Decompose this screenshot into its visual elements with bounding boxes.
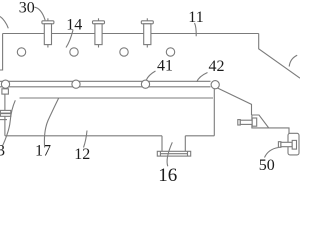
pin 1 bar [240,120,252,124]
furnace body 11 top line [3,33,259,35]
bolt 3 body [144,24,151,45]
hole 14 [70,48,78,56]
svg-text:16: 16 [158,165,177,186]
roller 41 [72,80,80,88]
hole 4 [166,48,174,56]
leader arc top-left (off-image label) [0,17,8,29]
tray bottom left [5,135,162,137]
svg-text:30: 30 [19,0,35,17]
bolt 3 cap [141,21,153,24]
bracket block 2 [288,133,299,155]
leader 11 [195,23,197,36]
roller 3 [141,80,149,88]
leader 41 [146,71,155,80]
rail 42 bottom line [0,86,211,88]
link line to bracket 2 [269,128,289,133]
bolt 2 cap [93,21,105,24]
tray 12 top line [20,97,214,99]
leader 16 [167,142,172,166]
bolt 30 body [44,24,51,45]
bolt 30 axis [47,18,49,47]
rail 42 top line [0,80,211,82]
fitting plate 1 [0,110,10,113]
svg-text:50: 50 [259,157,275,174]
bearing block left [2,89,8,94]
bolt 2 body [95,24,102,45]
tray right wall [213,89,215,136]
leader 17 [44,98,58,147]
svg-text:17: 17 [35,142,51,159]
hole 3 [120,48,128,56]
svg-text:14: 14 [66,16,82,33]
leader 3 [3,100,16,145]
flange 16 right divider [187,151,189,156]
body left wall with foot [0,34,3,71]
leader 50 [265,148,279,158]
bolt 3 axis [146,18,148,47]
leader 12 [84,131,88,148]
leader 14 [66,30,73,48]
bolt 2 axis [98,18,100,47]
roller 1 [1,80,9,88]
tray bottom right [185,135,214,137]
pin 2 cap [278,142,281,148]
bolt 30 cap [42,21,54,24]
pin 1 cap [238,120,241,125]
fitting tick [0,119,7,121]
diagonal from roller 4 [217,88,251,115]
flange 16 left divider [159,151,161,156]
svg-text:42: 42 [209,58,225,75]
svg-text:41: 41 [157,58,173,75]
svg-text:12: 12 [74,146,90,163]
leader 30 [35,7,46,20]
pin 1 tee [252,118,257,126]
svg-text:11: 11 [188,9,203,26]
body right wall and diagonal chute [259,34,300,79]
roller 4 [211,81,219,89]
outlet left wall [161,136,163,152]
fitting plate 2 [0,114,10,117]
hole 1 [17,48,25,56]
flange 16 midline [160,153,187,155]
leader arc top-right (off-image label) [289,55,297,66]
outlet right wall [184,136,186,152]
pin 2 bar [281,142,292,146]
left wall rod [4,94,6,136]
flange 16 outer [157,151,190,156]
leader 42 [197,73,208,82]
bracket block 1 [252,115,269,128]
pin 2 tee [292,140,296,149]
